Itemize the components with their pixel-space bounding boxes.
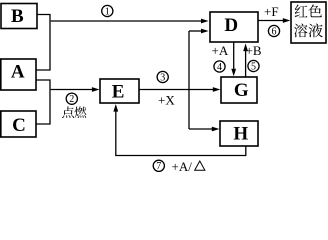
svg-text:+B: +B bbox=[246, 43, 262, 58]
svg-text:B: B bbox=[11, 6, 24, 27]
label circ6 bbox=[268, 25, 279, 37]
wire branch to H bbox=[189, 127, 219, 132]
text red-color line1 bbox=[295, 5, 308, 18]
wire bracket A-C bbox=[37, 80, 51, 124]
wire bracket B-A bbox=[37, 15, 51, 71]
wire arrow 2 to E bbox=[51, 87, 100, 92]
wire arrow 6 +F to red-solution bbox=[258, 18, 290, 23]
svg-text:2: 2 bbox=[69, 94, 74, 105]
wire loop 7 H to E bbox=[113, 104, 245, 156]
box B bbox=[1, 4, 37, 29]
svg-text:+F: +F bbox=[264, 4, 279, 19]
wire arrow 5 G to D bbox=[243, 44, 248, 78]
label circ4 bbox=[214, 61, 225, 73]
text solution line2 bbox=[294, 24, 307, 38]
box E bbox=[100, 79, 139, 103]
svg-text:D: D bbox=[224, 15, 238, 36]
box H bbox=[220, 121, 258, 146]
svg-text:3: 3 bbox=[160, 72, 165, 83]
svg-text:+A/: +A/ bbox=[172, 159, 193, 173]
box C bbox=[1, 111, 36, 137]
box D bbox=[210, 12, 258, 42]
label circ3 bbox=[157, 71, 168, 83]
box G bbox=[221, 77, 257, 103]
label +A/heat bbox=[172, 159, 205, 174]
svg-text:E: E bbox=[112, 81, 125, 102]
box red-solution bbox=[291, 2, 326, 43]
svg-text:4: 4 bbox=[217, 62, 222, 73]
wire branch to D bbox=[189, 29, 209, 34]
label circ2 bbox=[66, 93, 77, 105]
wire arrow 1 to D bbox=[51, 19, 209, 24]
wire arrow 3 to G bbox=[139, 87, 220, 92]
svg-text:C: C bbox=[12, 115, 26, 136]
label circ1 bbox=[102, 5, 113, 17]
svg-text:5: 5 bbox=[251, 61, 256, 72]
label ignite bbox=[62, 107, 87, 119]
wire branch vertical bbox=[188, 31, 190, 129]
svg-text:G: G bbox=[234, 80, 249, 101]
svg-text:+X: +X bbox=[158, 93, 175, 108]
svg-text:1: 1 bbox=[105, 6, 110, 17]
svg-text:A: A bbox=[11, 62, 25, 83]
svg-text:H: H bbox=[233, 123, 248, 144]
svg-text:7: 7 bbox=[156, 161, 161, 172]
label circ5 bbox=[248, 60, 259, 72]
svg-text:6: 6 bbox=[272, 26, 277, 37]
label circ7 bbox=[153, 160, 164, 172]
box A bbox=[1, 59, 36, 90]
wire arrow 4 D to G bbox=[231, 42, 236, 76]
svg-text:+A: +A bbox=[212, 43, 229, 58]
